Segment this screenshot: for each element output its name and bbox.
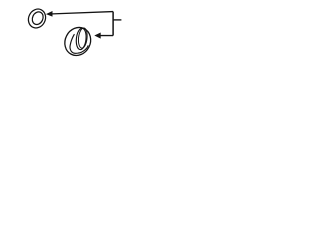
ring 1 (small O-ring, top left) xyxy=(25,6,48,31)
bracket vertical line xyxy=(112,12,114,36)
leader line 1 (from bracket to ring 1) xyxy=(50,12,114,14)
ring 2 bore back edge xyxy=(78,28,89,49)
ring 2 thickness contour (lower-left partial arc) xyxy=(70,35,88,54)
leader line 2 (from bracket to ring 2) xyxy=(99,35,113,37)
ring 2 outer contour xyxy=(60,23,95,60)
bracket tick xyxy=(113,19,121,21)
arrowhead 1 xyxy=(46,11,53,17)
ring 2 (thick seal ring, bottom middle) xyxy=(60,23,95,60)
arrowhead 2 xyxy=(94,33,100,39)
ring 2 bore front edge xyxy=(75,28,87,50)
